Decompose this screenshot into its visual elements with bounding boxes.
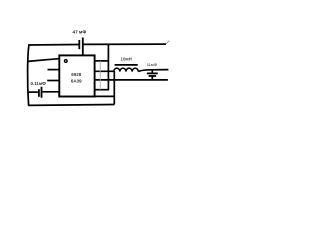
svg-text:0.11мФ: 0.11мФ	[31, 81, 47, 86]
svg-text:6928: 6928	[71, 72, 82, 77]
svg-text:11мФ: 11мФ	[147, 62, 158, 67]
svg-text:10мН: 10мН	[121, 57, 132, 62]
svg-text:6А39: 6А39	[71, 78, 82, 83]
svg-text:47 мФ: 47 мФ	[73, 29, 87, 34]
